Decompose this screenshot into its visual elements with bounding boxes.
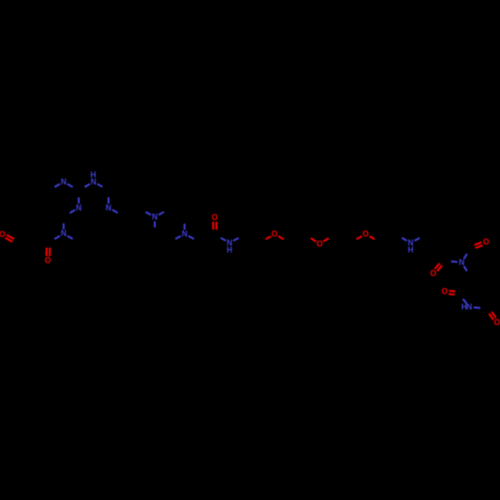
bond NHa-C15 [221, 238, 226, 241]
bond NHa-C16 [233, 238, 238, 241]
bond N8-CHp [464, 266, 467, 271]
bond NHb-C23 [402, 238, 407, 241]
bond N3-C7 [108, 197, 110, 203]
bond HNg-C3p [463, 299, 467, 304]
bond O4-C18 [278, 236, 283, 239]
double bond O8=C2p [437, 265, 442, 271]
double bond O1=Cket [5, 238, 12, 242]
atom N6 [182, 229, 188, 238]
double bond O7=C1p [474, 242, 481, 245]
bond N2-C4py [70, 210, 75, 213]
svg-text:H: H [227, 245, 233, 254]
svg-text:H: H [408, 245, 414, 254]
bond N6-C12 [184, 224, 186, 230]
atom N8 [459, 258, 465, 267]
svg-text:O: O [316, 239, 322, 248]
bond N8-C1p [464, 254, 467, 259]
hydrogen Hp [90, 170, 96, 179]
bond O5-C20 [323, 238, 329, 241]
double bond O2=Cam1 [45, 248, 47, 257]
bond HNg-C4p [474, 306, 481, 309]
atom O4 [271, 230, 277, 239]
svg-text:N: N [76, 203, 82, 212]
bond N5-C11 [154, 221, 156, 227]
bond O6-C21 [356, 236, 361, 239]
double bond O7=C1p [475, 245, 482, 248]
svg-text:O: O [271, 230, 277, 239]
svg-text:O: O [212, 213, 218, 222]
bond NHp-C7 [97, 184, 102, 187]
atom O3 [212, 213, 218, 222]
atom HNg [466, 302, 472, 311]
svg-text:O: O [362, 230, 368, 239]
svg-text:O: O [430, 269, 436, 278]
bond NHb-C24 [414, 238, 419, 241]
atom O2 [45, 256, 51, 265]
svg-text:H: H [461, 302, 467, 311]
bond N6-C13 [175, 236, 180, 239]
svg-text:N: N [459, 258, 465, 267]
double bond O10=C4p [492, 312, 496, 318]
double bond O9=C3p [449, 293, 455, 296]
svg-text:O: O [494, 318, 500, 327]
bond N4-C4py [63, 223, 65, 229]
atom O9 [441, 287, 447, 296]
atom N4 [61, 229, 67, 238]
atom NHb [408, 238, 414, 247]
double bond O2=Cam1 [49, 248, 51, 257]
bond O4-C17 [266, 236, 271, 239]
bond O6-C22 [369, 236, 374, 239]
svg-text:O: O [0, 230, 5, 239]
bond N5-C9 [146, 212, 151, 215]
atom O7 [483, 238, 489, 247]
atom NHa [227, 238, 233, 247]
svg-text:O: O [441, 287, 447, 296]
svg-text:N: N [182, 229, 188, 238]
bond N4-Cam1 [55, 236, 60, 239]
hydrogen Hb [408, 245, 414, 254]
atom O5 [316, 239, 322, 248]
bond N3-C8 [112, 210, 118, 213]
atom NHp [91, 177, 97, 186]
atom O6 [362, 230, 368, 239]
hydrogen Ha [227, 245, 233, 254]
svg-text:N: N [61, 229, 67, 238]
atom N2 [76, 203, 82, 212]
double bond O9=C3p [449, 290, 455, 293]
bond N2-C2py [78, 197, 80, 203]
svg-text:N: N [466, 302, 472, 311]
bond N5-C10 [159, 212, 164, 215]
bond N4-CMe [67, 236, 72, 239]
svg-text:N: N [152, 213, 158, 222]
atom N3 [106, 203, 112, 212]
hydrogen Hg [461, 302, 467, 311]
bond O5-C19 [311, 238, 316, 241]
bond N6-C14 [188, 236, 194, 239]
bond N8-C2p [451, 260, 457, 263]
double bond O10=C4p [489, 314, 493, 320]
double bond O3=C15 [215, 222, 217, 230]
bond N1-C6py [55, 184, 60, 187]
svg-text:O: O [483, 238, 489, 247]
bond N1-C2py [67, 184, 72, 187]
svg-text:N: N [106, 203, 112, 212]
atom O1 [0, 230, 5, 239]
svg-text:O: O [45, 256, 51, 265]
svg-text:H: H [90, 170, 96, 179]
atom N1 [61, 177, 67, 186]
double bond O1=Cket [7, 235, 14, 239]
atom N5 [152, 213, 158, 222]
svg-text:N: N [61, 177, 67, 186]
double bond O8=C2p [435, 263, 440, 269]
atom O10 [494, 318, 500, 327]
double bond O3=C15 [212, 222, 214, 230]
atom O8 [430, 269, 436, 278]
bond NHp-C2py [85, 184, 90, 187]
